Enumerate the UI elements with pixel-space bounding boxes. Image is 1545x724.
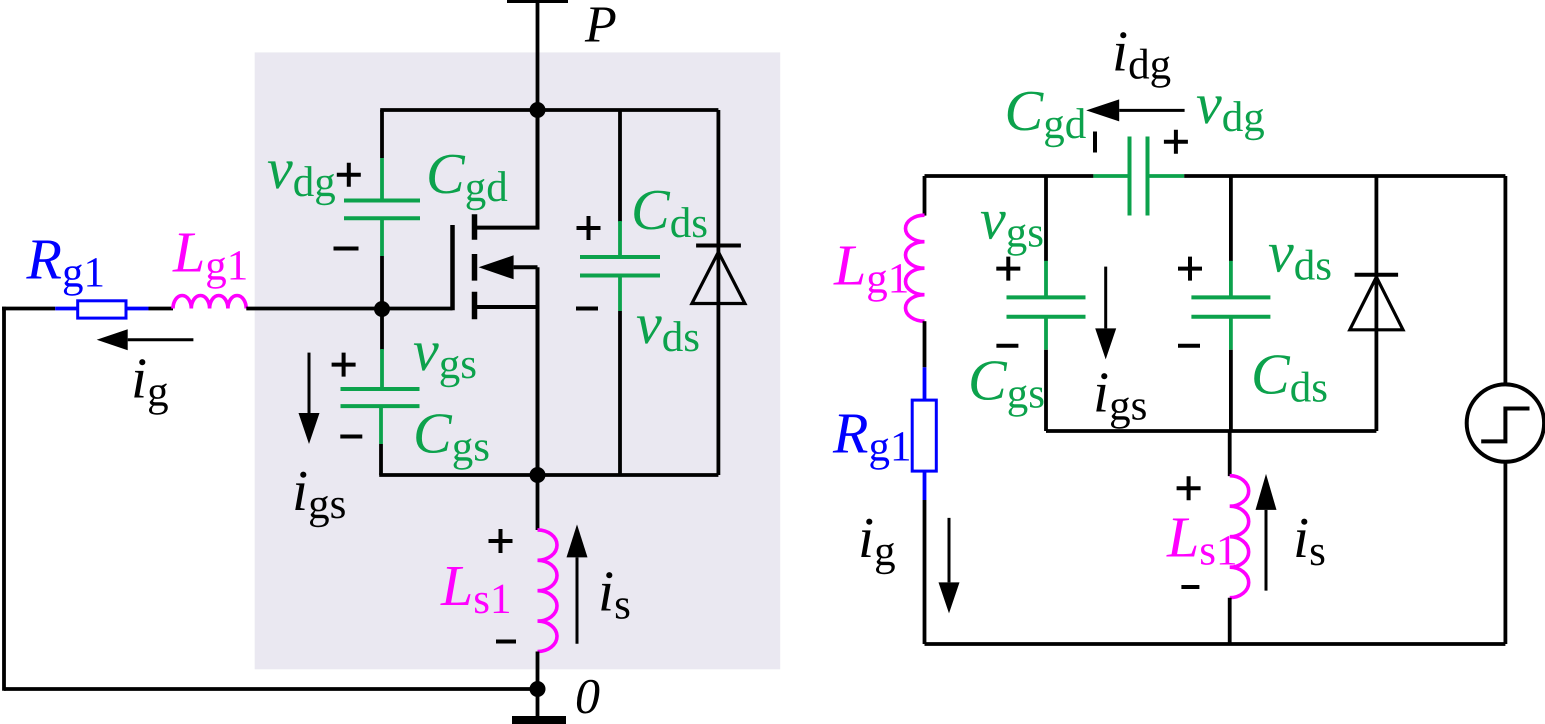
wire source to Ls1 [536, 475, 540, 530]
plus v_ds2 [1178, 257, 1202, 281]
svg-text:Rg1: Rg1 [26, 226, 105, 296]
svg-text:ig: ig [858, 505, 896, 575]
minus v_ds [576, 307, 598, 311]
wire top rail left segment [925, 174, 1094, 178]
resistor Rg1 [78, 301, 126, 318]
wire top rail right segment [1184, 174, 1505, 178]
capacitor Cds lower lead [618, 275, 622, 311]
source Vstep circle [1467, 384, 1544, 461]
plus Ls1 [489, 529, 513, 553]
svg-text:vdg: vdg [1196, 71, 1265, 141]
wire gate node to Cgs [380, 309, 384, 350]
svg-text:Cgs: Cgs [968, 347, 1045, 417]
capacitor Cgd2 left lead [1093, 174, 1129, 178]
transistor body arrow [514, 265, 538, 269]
capacitor Cgs2 [1007, 297, 1086, 316]
capacitor Cgs lower lead [379, 406, 383, 444]
diode D2 triangle [1350, 277, 1403, 330]
capacitor Cgs [341, 389, 420, 406]
resistor Rg1-2 lower lead [923, 471, 927, 500]
capacitor Cgs upper lead [380, 349, 384, 389]
wire Vstep to bottom [1504, 462, 1508, 644]
minus v_gs [340, 435, 362, 439]
svg-text:Lg1: Lg1 [172, 219, 248, 289]
shaded device region [255, 52, 781, 669]
wire P rail to top node [536, 3, 540, 110]
minus v_gs2 [996, 344, 1018, 348]
plus v_dg2 [1164, 130, 1188, 154]
transistor channel dashes [472, 214, 478, 319]
arrow i_gs [308, 353, 311, 413]
source Vstep step symbol [1481, 409, 1529, 442]
inductor Ls1-2 [1230, 476, 1249, 598]
capacitor Cgd2 right lead [1148, 174, 1185, 178]
minus Ls1 [496, 640, 516, 644]
minus v_ds2 [1178, 344, 1200, 348]
node source junction [530, 467, 546, 483]
resistor Rg1 right lead [126, 307, 149, 311]
ground bar [512, 716, 566, 724]
svg-text:0: 0 [575, 668, 600, 724]
wire inner bottom to Ls1-2 [1228, 431, 1232, 476]
svg-text:is: is [1293, 505, 1326, 575]
arrow i_g2 [948, 518, 951, 583]
capacitor Cds upper lead [618, 221, 622, 257]
wire Rg1-2 to bottom [923, 500, 927, 644]
plus v_ds [577, 216, 601, 240]
svg-text:Lg1: Lg1 [833, 233, 909, 303]
svg-text:igs: igs [1093, 359, 1147, 429]
wire Cds2 to inner bottom [1229, 350, 1233, 431]
wire left input [2, 307, 55, 311]
arrow i_dg [1119, 109, 1184, 112]
capacitor Cgs2 upper lead [1044, 261, 1048, 298]
capacitor Cds2 [1191, 297, 1270, 316]
wire bottom rail right circuit [925, 642, 1506, 646]
svg-text:Ls1: Ls1 [1166, 505, 1238, 575]
svg-text:idg: idg [1112, 19, 1171, 89]
diode D triangle [692, 252, 745, 304]
wire Cgs2 to inner bottom [1044, 350, 1048, 431]
inductor Lg1 [173, 296, 246, 309]
supply rail bar P [507, 0, 568, 3]
transistor drain lead [477, 110, 538, 228]
resistor Rg1-2 [912, 400, 936, 471]
wire top to Cgd [380, 110, 384, 158]
wire diode branch [717, 110, 721, 475]
svg-text:Rg1: Rg1 [832, 401, 911, 471]
wire top node row [380, 108, 718, 112]
capacitor Cds2 upper lead [1229, 261, 1233, 298]
capacitor Cgs2 lower lead [1044, 317, 1048, 350]
node drain junction [530, 102, 546, 118]
wire Rg1 to Lg1 [149, 307, 174, 311]
wire bottom return [4, 687, 538, 691]
wire inner bottom rail [1046, 429, 1376, 433]
plus v_gs2 [996, 257, 1020, 281]
minus v_dg [334, 247, 359, 251]
arrow i_s [576, 557, 579, 643]
capacitor Cds [580, 257, 660, 276]
resistor Rg1-2 upper lead [923, 367, 927, 400]
svg-text:P: P [584, 0, 617, 54]
wire Ls1 to ground node [536, 652, 540, 690]
capacitor Cgd2 [1130, 137, 1148, 216]
diode D2 cathode bar [1355, 273, 1399, 277]
svg-text:Cds: Cds [1251, 342, 1328, 412]
wire gate node to MOSFET gate [382, 307, 453, 311]
inductor Ls1 [538, 530, 558, 652]
plus v_dg [337, 163, 361, 187]
wire top to Lg1-2 [923, 176, 927, 216]
arrow i_s2 [1265, 510, 1268, 591]
diode D cathode bar [696, 244, 741, 248]
capacitor Cgd upper lead [380, 158, 384, 200]
wire Lg1 to gate node [246, 307, 382, 311]
wire Cgd to gate node [380, 256, 384, 309]
wire to ground bar [536, 689, 540, 718]
resistor Rg1 left lead [55, 307, 77, 311]
wire Lg1-2 to Rg1-2 [923, 321, 927, 367]
arrow i_g [128, 338, 194, 341]
capacitor Cgd [344, 201, 420, 219]
wire box bottom rail [379, 473, 718, 477]
svg-text:ig: ig [131, 346, 169, 416]
wire top to Cds [618, 110, 622, 222]
arrow i_gs2 [1104, 267, 1107, 329]
plus Ls1-2 [1177, 476, 1201, 500]
svg-text:Cgd: Cgd [1005, 78, 1087, 148]
capacitor Cgd lower lead [380, 218, 384, 256]
wire diode2 branch [1375, 176, 1379, 431]
wire Cds to bottom rail [618, 311, 622, 475]
wire top to Cds2 [1229, 176, 1233, 261]
svg-text:vgs: vgs [980, 187, 1044, 257]
wire top to Cgs2 [1044, 176, 1048, 261]
node gate junction [374, 301, 390, 317]
inductor Lg1-2 [906, 215, 925, 321]
svg-text:vds: vds [1268, 219, 1332, 289]
transistor gate bar [450, 225, 455, 310]
minus v_dg2 [1093, 132, 1097, 153]
wire left edge vertical [2, 307, 6, 691]
minus Ls1-2 [1181, 585, 1199, 589]
node 0 junction [530, 681, 546, 697]
transistor source lead [477, 267, 538, 475]
capacitor Cds2 lower lead [1229, 317, 1233, 350]
wire top to source Vstep [1504, 176, 1508, 384]
plus v_gs [332, 353, 356, 377]
wire Cgs to bottom rail [379, 444, 383, 475]
wire Ls1-2 to bottom [1228, 598, 1232, 644]
